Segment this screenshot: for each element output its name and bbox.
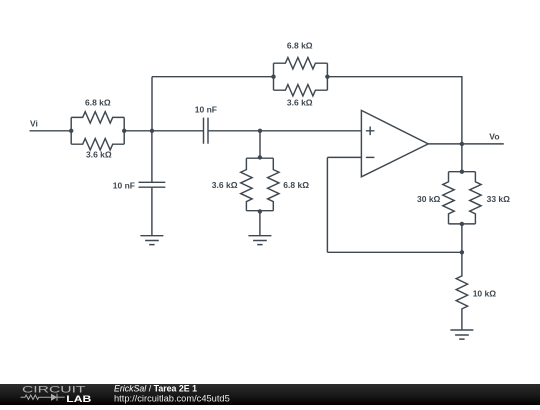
wire middle pair to ground: [259, 211, 261, 235]
svg-text:3.6 kΩ: 3.6 kΩ: [86, 150, 112, 160]
resistor R4 6.8k (right of middle vertical pair): [268, 158, 310, 211]
wire top bracket of middle pair: [246, 157, 273, 159]
wire top rail to feedback pair: [152, 76, 274, 78]
capacitor C2 10nF shunt: [113, 131, 166, 191]
resistor R3 3.6k (left of middle vertical pair): [212, 158, 252, 211]
wire load pair down to bottom junction: [461, 224, 463, 252]
ground under middle pair: [248, 236, 271, 245]
resistor R2 3.6k (bottom of input parallel pair): [71, 139, 124, 160]
wire bottom bracket of load pair: [449, 223, 476, 225]
wire bracket left of input pair: [70, 117, 72, 144]
wire top bracket of load pair: [449, 171, 476, 173]
node junction bottom of load pair: [460, 222, 464, 226]
svg-text:10 nF: 10 nF: [195, 105, 217, 115]
node junction right of input pair: [122, 129, 126, 133]
svg-text:ErickSal / Tarea 2E 1: ErickSal / Tarea 2E 1: [114, 384, 197, 394]
svg-text:6.8 kΩ: 6.8 kΩ: [85, 97, 111, 107]
wire Vi input: [30, 130, 72, 132]
wire feedback pair to output rail corner: [327, 77, 462, 144]
CircuitLab logo resistor-diode line: [21, 394, 65, 401]
svg-text:LAB: LAB: [66, 394, 91, 404]
svg-text:CIRCUIT: CIRCUIT: [22, 384, 86, 394]
wire from main wire down to middle parallel pair: [259, 131, 261, 158]
svg-text:33 kΩ: 33 kΩ: [487, 194, 511, 204]
resistor R8 33k (right of load pair): [470, 172, 510, 224]
wire bracket right of feedback pair: [326, 63, 328, 90]
op-amp U1: [361, 110, 428, 176]
node junction top of load pair: [460, 170, 464, 174]
wire vertical from main wire up to top feedback rail: [151, 77, 153, 131]
svg-text:Vi: Vi: [30, 119, 38, 129]
wire feedback down from minus input: [326, 157, 328, 252]
node junction feedback/bottom: [460, 250, 464, 254]
node junction at x=260 on main wire: [258, 129, 262, 133]
wire bracket left of feedback pair: [273, 63, 275, 90]
ground under 10k resistor: [450, 330, 473, 339]
node junction left of feedback pair: [271, 75, 275, 79]
wire op-amp minus input stub: [327, 156, 361, 158]
wire feedback bottom horizontal: [327, 251, 462, 253]
footer bar: [0, 384, 540, 405]
svg-text:3.6 kΩ: 3.6 kΩ: [287, 98, 313, 108]
svg-text:30 kΩ: 30 kΩ: [417, 194, 441, 204]
wire bracket right of input pair: [123, 117, 125, 144]
node junction left of input pair: [69, 129, 73, 133]
resistor R7 30k (left of load pair): [417, 172, 454, 224]
svg-text:10 kΩ: 10 kΩ: [473, 289, 497, 299]
wire bottom bracket of middle pair: [246, 210, 273, 212]
wire op-amp output: [428, 143, 504, 145]
node junction right of feedback pair: [325, 75, 329, 79]
wire from series capacitor to op-amp + input: [208, 130, 361, 132]
svg-text:http://circuitlab.com/c45utd5: http://circuitlab.com/c45utd5: [114, 394, 230, 404]
resistor R1 6.8k (top of input parallel pair): [71, 97, 124, 123]
node junction at x=152 on main wire: [150, 129, 154, 133]
wire from input pair to series capacitor: [124, 130, 203, 132]
ground under shunt capacitor: [140, 236, 163, 245]
capacitor C1 10nF series: [195, 105, 217, 144]
svg-text:10 nF: 10 nF: [113, 181, 135, 191]
svg-text:6.8 kΩ: 6.8 kΩ: [283, 180, 309, 190]
node junction at output: [460, 142, 464, 146]
resistor R5 6.8k (top of feedback parallel pair): [274, 41, 328, 69]
svg-text:3.6 kΩ: 3.6 kΩ: [212, 180, 238, 190]
node junction top of middle pair: [258, 155, 262, 159]
node junction bottom of middle pair: [258, 209, 262, 213]
wire shunt capacitor to ground: [151, 187, 153, 236]
resistor R9 10k: [456, 252, 496, 330]
svg-text:Vo: Vo: [489, 131, 499, 141]
svg-text:6.8 kΩ: 6.8 kΩ: [287, 41, 313, 51]
wire output down to load pair: [461, 144, 463, 172]
resistor R6 3.6k (bottom of feedback parallel pair): [274, 85, 328, 108]
